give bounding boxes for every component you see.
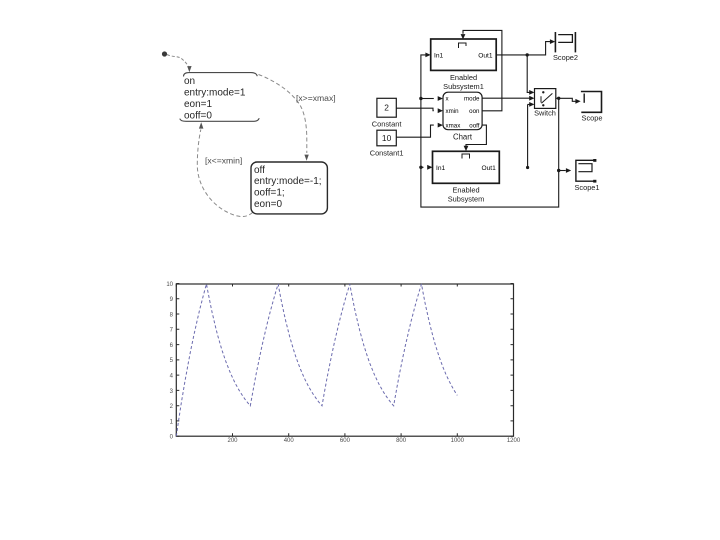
- plot curve: [176, 284, 457, 436]
- junction: branch to Scope1: [557, 169, 560, 172]
- svg-text:In1: In1: [436, 165, 445, 172]
- arrowhead into Subsystem1 In1: [425, 53, 430, 58]
- svg-text:10: 10: [166, 282, 173, 288]
- Enabled Subsystem1 block: [431, 39, 497, 70]
- svg-text:5: 5: [170, 358, 174, 364]
- svg-text:Out1: Out1: [482, 165, 497, 172]
- svg-text:off: off: [254, 165, 265, 176]
- arrowhead into Scope1: [566, 168, 571, 173]
- arrowhead into Chart xmax: [438, 123, 443, 128]
- Switch block: [535, 89, 556, 109]
- arrowhead into Scope2: [550, 39, 555, 44]
- svg-text:Scope2: Scope2: [553, 53, 578, 62]
- svg-text:1: 1: [170, 419, 174, 425]
- Scope block icon: [581, 92, 602, 113]
- transition [x<=xmin] arrowhead: [199, 122, 204, 128]
- svg-text:Subsystem1: Subsystem1: [443, 82, 484, 91]
- Constant block (2): [377, 98, 396, 117]
- svg-text:xmin: xmin: [446, 108, 460, 115]
- wire: constant 2 to chart xmin: [396, 108, 434, 111]
- Enabled Subsystem block (lower): [433, 151, 500, 183]
- svg-text:Chart: Chart: [453, 133, 473, 142]
- svg-text:xmax: xmax: [446, 123, 462, 130]
- junction: switch output feedback branch: [557, 97, 560, 100]
- wire: constant 10 to chart xmax: [396, 125, 434, 137]
- Constant1 block (10): [377, 130, 396, 146]
- svg-text:eon=0: eon=0: [254, 199, 283, 210]
- transition [x>=xmax] arrowhead: [304, 155, 308, 161]
- dangling wire end dot: [526, 166, 529, 169]
- svg-text:oon: oon: [469, 108, 480, 115]
- svg-text:8: 8: [170, 312, 174, 318]
- arrowhead into Switch input 2: [529, 96, 534, 101]
- svg-text:mode: mode: [464, 96, 480, 103]
- svg-text:In1: In1: [434, 52, 443, 59]
- Scope2 block icon: [554, 32, 556, 52]
- svg-text:on: on: [184, 76, 195, 87]
- svg-text:ooff=0: ooff=0: [184, 111, 212, 122]
- svg-text:ooff=1;: ooff=1;: [254, 188, 285, 199]
- arrowhead into Switch input 1: [529, 90, 534, 95]
- wire: oon to enable of top subsystem: [463, 30, 502, 110]
- junction: feedback to chart x: [419, 97, 422, 100]
- svg-text:Scope1: Scope1: [574, 183, 599, 192]
- default transition arrowhead: [187, 66, 191, 72]
- default transition curve: [167, 55, 189, 69]
- svg-text:800: 800: [396, 438, 407, 444]
- state "on" bottom edge: [180, 118, 259, 121]
- svg-text:7: 7: [170, 328, 174, 334]
- state "off" box: [251, 162, 327, 214]
- junction: subsystem1 output branch: [526, 53, 529, 56]
- svg-text:x: x: [446, 96, 450, 103]
- arrowhead into lower subsystem enable port: [464, 146, 469, 151]
- arrowhead into lower subsystem In1: [427, 165, 432, 170]
- wire: feedback vertical from switch output down: [421, 55, 559, 207]
- svg-text:400: 400: [284, 438, 295, 444]
- svg-text:0: 0: [170, 435, 174, 441]
- transition [x>=xmax] curve: [259, 75, 307, 154]
- wire: top subsystem output: [496, 42, 550, 55]
- svg-text:600: 600: [340, 438, 351, 444]
- default transition initial dot: [162, 51, 167, 56]
- svg-text:entry:mode=1: entry:mode=1: [184, 88, 246, 99]
- svg-text:2: 2: [170, 404, 174, 410]
- Scope1 block icon: [576, 160, 594, 181]
- Enabled Subsystem1 enable-port glyph: [459, 43, 467, 48]
- y axis ticks and labels: [176, 435, 513, 437]
- wire: switch input 3 stub and dangling branch: [528, 104, 531, 166]
- svg-text:entry:mode=-1;: entry:mode=-1;: [254, 176, 322, 187]
- svg-text:Enabled: Enabled: [452, 186, 479, 195]
- wire: switch output to Scope: [556, 98, 577, 101]
- svg-text:Scope: Scope: [582, 114, 603, 123]
- state "on" top edge: [184, 73, 258, 77]
- wire: branch down to switch input 1: [527, 55, 531, 93]
- arrowhead into Subsystem1 enable port: [461, 34, 466, 39]
- Switch glyph: [542, 91, 544, 93]
- svg-text:Enabled: Enabled: [450, 73, 477, 82]
- junction: feedback to lower In1: [419, 166, 422, 169]
- svg-text:Constant1: Constant1: [370, 149, 404, 158]
- svg-text:Out1: Out1: [478, 52, 493, 59]
- wire: ooff to enable of lower subsystem: [466, 125, 486, 146]
- svg-text:Switch: Switch: [534, 109, 556, 118]
- arrowhead into Chart xmin: [438, 108, 443, 113]
- svg-text:[x>=xmax]: [x>=xmax]: [296, 93, 336, 103]
- Chart block: [443, 92, 482, 130]
- svg-text:Constant: Constant: [372, 120, 402, 129]
- svg-text:4: 4: [170, 374, 174, 380]
- svg-text:2: 2: [384, 103, 389, 113]
- svg-text:200: 200: [227, 438, 238, 444]
- svg-text:ooff: ooff: [469, 123, 479, 130]
- arrowhead into Scope: [575, 99, 580, 104]
- svg-text:3: 3: [170, 389, 174, 395]
- svg-text:10: 10: [382, 133, 392, 143]
- arrowhead into Switch input 3: [529, 102, 534, 107]
- arrowhead into Chart x: [438, 96, 443, 101]
- x axis ticks and labels: [175, 284, 177, 437]
- svg-text:9: 9: [170, 297, 174, 303]
- wire: branch to Chart input x: [421, 98, 434, 100]
- wire: branch to lower subsystem In1: [421, 166, 424, 168]
- plot axes box: [176, 284, 513, 436]
- svg-text:eon=1: eon=1: [184, 99, 213, 110]
- wire: branch to Scope1: [559, 170, 566, 172]
- transition [x<=xmin] curve: [197, 130, 252, 217]
- svg-text:6: 6: [170, 343, 174, 349]
- wire: mode to switch input 2: [482, 97, 531, 99]
- svg-text:1000: 1000: [451, 438, 465, 444]
- svg-text:1200: 1200: [507, 438, 521, 444]
- svg-text:[x<=xmin]: [x<=xmin]: [205, 156, 242, 166]
- lower enable-port glyph: [462, 154, 470, 159]
- svg-text:Subsystem: Subsystem: [448, 195, 485, 204]
